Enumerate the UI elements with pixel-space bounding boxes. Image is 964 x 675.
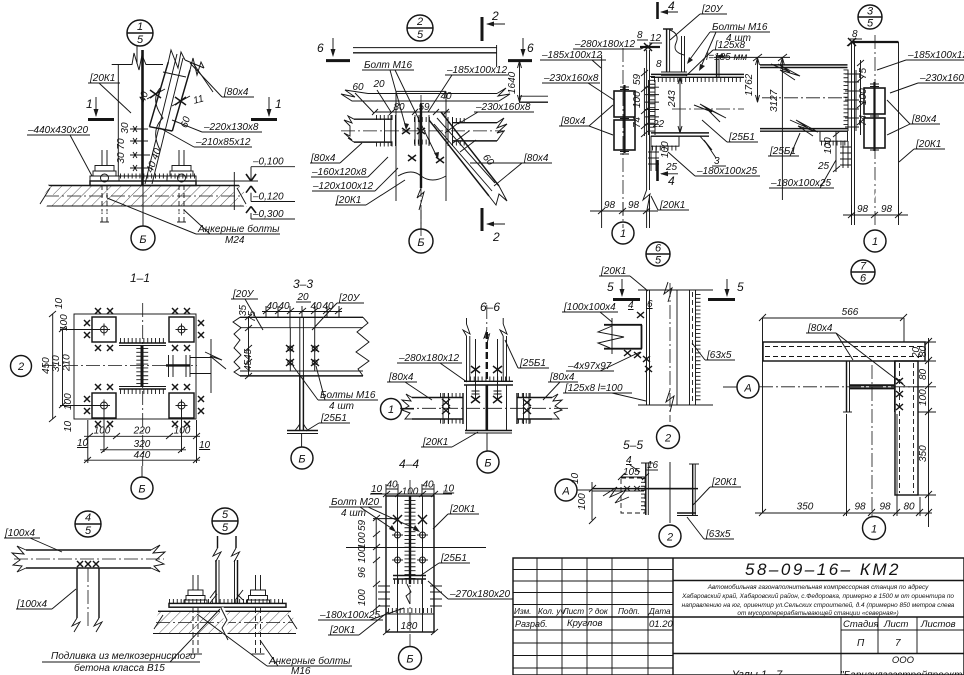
label 80x4 right: [470, 153, 552, 186]
section mark 6 right: [508, 38, 534, 61]
svg-text:[25Б1: [25Б1: [440, 553, 467, 564]
label 20K1 node1: [651, 196, 689, 211]
dim 98 98 bottom right: [843, 204, 908, 218]
svg-text:[80x4: [80x4: [388, 372, 414, 383]
svg-text:100: 100: [63, 393, 74, 410]
section mark 2 top: [482, 9, 505, 41]
column web horizontal: [592, 489, 698, 491]
support table: [648, 136, 679, 171]
lower comb s44: [378, 584, 442, 614]
svg-text:100: 100: [357, 546, 368, 563]
svg-text:6–6: 6–6: [480, 300, 500, 314]
svg-text:16: 16: [647, 460, 659, 471]
svg-text:5: 5: [222, 522, 229, 534]
left dims 35 75 45 45: [238, 304, 258, 379]
label 25B1 left: [768, 133, 800, 157]
label 80x4: [190, 63, 254, 98]
svg-text:[25Б1: [25Б1: [519, 358, 546, 369]
svg-text:[80x4: [80x4: [523, 153, 549, 164]
long centerline: [341, 130, 505, 132]
weld mark 3: [712, 156, 726, 167]
svg-text:98: 98: [879, 502, 891, 513]
svg-text:Кол. уч: Кол. уч: [538, 607, 565, 616]
elevation mark -0,100: [196, 157, 295, 211]
dims 100 25 right: [817, 131, 840, 172]
top dims 20 and 40x4: [262, 292, 342, 328]
svg-text:74: 74: [632, 116, 643, 128]
svg-text:10: 10: [63, 420, 74, 432]
label 25B1 s66: [505, 340, 549, 369]
project description: [673, 583, 964, 617]
svg-text:100: 100: [918, 389, 929, 406]
support table right: [820, 131, 851, 168]
svg-text:12: 12: [650, 33, 662, 44]
svg-text:98: 98: [881, 204, 893, 215]
anchor assembly right: [167, 150, 196, 222]
centerline s55: [669, 462, 671, 523]
revision table header text: [514, 607, 673, 630]
svg-text:5: 5: [137, 34, 144, 46]
anchor plate BL: [84, 384, 116, 427]
svg-text:1: 1: [275, 97, 282, 111]
svg-text:98: 98: [854, 502, 866, 513]
label 125x8 l=100: [563, 383, 646, 401]
dim 1640: [507, 61, 548, 102]
svg-text:[20К1: [20К1: [89, 73, 115, 84]
column K1 d65: [638, 282, 713, 422]
svg-text:2: 2: [492, 230, 500, 244]
svg-text:[20У: [20У: [701, 4, 724, 15]
bolt label M20: [329, 497, 420, 532]
svg-text:40: 40: [422, 480, 434, 491]
svg-text:96: 96: [357, 566, 368, 578]
svg-text:Хабаровский край, Хабаровский: Хабаровский край, Хабаровский район, с.Ф…: [681, 592, 954, 600]
left brace 80x4 s66: [402, 393, 463, 424]
svg-text:[20К1: [20К1: [600, 266, 626, 277]
svg-text:–270x180x20: –270x180x20: [449, 589, 510, 600]
svg-text:2: 2: [17, 361, 24, 373]
labels right side: [877, 50, 964, 162]
svg-text:Б: Б: [406, 654, 413, 666]
label 63x5 s55: [687, 517, 734, 540]
grid bubble 2 d65: [657, 426, 680, 449]
svg-text:2: 2: [666, 532, 673, 544]
section mark 4 top: [658, 0, 679, 19]
svg-text:180: 180: [401, 621, 418, 632]
beam 25B1 top flange: [651, 74, 744, 79]
revision table grid: [513, 558, 673, 675]
svg-text:бетона класса В15: бетона класса В15: [74, 662, 165, 674]
svg-text:243: 243: [667, 90, 678, 108]
svg-text:2: 2: [664, 433, 671, 445]
svg-text:105: 105: [623, 467, 640, 478]
grid bubble A right: [723, 376, 759, 398]
svg-text:40: 40: [386, 480, 398, 491]
svg-text:1: 1: [871, 524, 877, 536]
svg-text:80: 80: [918, 368, 929, 380]
svg-text:59: 59: [357, 519, 368, 531]
svg-text:М24: М24: [225, 235, 245, 246]
elevation mark -0,120: [246, 186, 295, 203]
svg-text:–120x100x12: –120x100x12: [312, 181, 373, 192]
column face comb: [650, 76, 655, 134]
svg-text:Автомобильная газонаполнительн: Автомобильная газонаполнительная компрес…: [707, 583, 929, 591]
tube section dashed: [603, 478, 645, 513]
svg-text:98: 98: [628, 200, 640, 211]
vertical beam 25B1: [463, 305, 507, 381]
svg-text:45: 45: [243, 348, 254, 360]
right brace 80x4 s66: [517, 393, 562, 424]
title block frame: [513, 558, 964, 675]
svg-text:7: 7: [860, 261, 867, 273]
dim 100 25 lower: [660, 141, 678, 173]
label 20K1 right s44: [433, 504, 479, 529]
svg-text:[63x5: [63x5: [705, 529, 731, 540]
svg-text:Б: Б: [484, 458, 491, 470]
anchor plate TL: [84, 308, 116, 351]
top plate mark: [637, 30, 662, 51]
storey dim 1762: [714, 54, 790, 102]
label -280x180x12 s66: [397, 353, 467, 382]
svg-text:[100x100x4: [100x100x4: [563, 302, 616, 313]
svg-text:100: 100: [577, 493, 588, 510]
grid bubble 2 s55: [659, 525, 681, 547]
svg-text:100: 100: [94, 426, 111, 437]
svg-text:–230x160x8: –230x160x8: [543, 73, 599, 84]
svg-text:–4x97x97: –4x97x97: [567, 361, 612, 372]
anchor bolt left d55: [184, 575, 207, 654]
svg-text:40: 40: [310, 301, 322, 312]
svg-text:10: 10: [54, 297, 65, 309]
svg-text:[20К1: [20К1: [335, 195, 361, 206]
svg-text:[80x4: [80x4: [807, 323, 833, 334]
svg-text:60: 60: [352, 82, 364, 93]
svg-text:? док: ? док: [588, 607, 609, 616]
svg-text:[80x4: [80x4: [310, 153, 336, 164]
svg-text:Лист: Лист: [883, 619, 909, 630]
grid bubble A left: [555, 479, 592, 501]
base plate d55: [169, 602, 286, 608]
section mark 1 left: [86, 97, 114, 120]
svg-text:–160x120x8: –160x120x8: [311, 167, 367, 178]
top dims s44: [370, 480, 455, 498]
svg-text:7: 7: [895, 638, 901, 649]
dim chain 75 100 74: [857, 60, 869, 135]
grid bubble 1: [612, 222, 634, 244]
svg-text:П: П: [857, 638, 865, 649]
svg-text:350: 350: [918, 445, 929, 462]
svg-text:566: 566: [842, 307, 859, 318]
svg-text:[20У: [20У: [338, 293, 361, 304]
svg-text:–185x100x12: –185x100x12: [907, 50, 964, 61]
svg-text:Подливка из мелкозернистого: Подливка из мелкозернистого: [51, 651, 196, 662]
anchor assembly left: [90, 150, 119, 222]
top bar 80x4 plan: [763, 342, 925, 361]
svg-text:25: 25: [665, 162, 678, 173]
svg-text:Болт М20: Болт М20: [331, 497, 379, 508]
svg-text:5: 5: [655, 255, 662, 267]
label -185x100x12: [428, 65, 508, 112]
svg-text:6: 6: [647, 299, 653, 310]
label 20U right: [312, 293, 364, 330]
svg-text:5: 5: [867, 18, 874, 30]
section mark 5 left: [607, 279, 640, 300]
top chord beam: [353, 45, 497, 67]
svg-text:Болт М16: Болт М16: [364, 60, 412, 71]
dim 98 98 bottom: [590, 200, 658, 215]
svg-text:[25Б1: [25Б1: [320, 413, 347, 424]
dim 566: [759, 307, 907, 513]
grid bubble 1 s66: [381, 399, 415, 420]
svg-text:2: 2: [416, 16, 423, 28]
svg-text:5: 5: [222, 509, 229, 521]
grid bubble B detail2: [409, 210, 433, 253]
section mark 5 right: [708, 279, 744, 300]
column 20K1 elevation: [112, 46, 163, 185]
svg-text:4: 4: [626, 455, 632, 466]
grid bubble 1 right: [864, 230, 886, 252]
endplate bolt ladder: [645, 80, 659, 135]
mid through-beam: [341, 88, 510, 101]
bolt X marks center: [402, 128, 444, 163]
svg-text:–280x180x12: –280x180x12: [574, 39, 635, 50]
svg-text:[20К1: [20К1: [449, 504, 475, 515]
svg-text:80: 80: [903, 502, 915, 513]
svg-text:[100x4: [100x4: [4, 528, 35, 539]
svg-text:6: 6: [527, 41, 534, 55]
base plate plan: [42, 303, 197, 466]
svg-text:20: 20: [296, 292, 309, 303]
left dim chain 59 100 74 22: [632, 59, 665, 137]
grid bubble 1 d76: [863, 517, 886, 540]
svg-text:[80x4: [80x4: [549, 372, 575, 383]
label 125x8: [686, 40, 750, 76]
label 20K1 s55: [693, 477, 741, 505]
svg-text:70: 70: [116, 138, 127, 150]
column flange left: [641, 463, 653, 515]
label Bolt M16: [362, 60, 439, 159]
label 20K1 left s44: [328, 612, 388, 636]
label -4x97x97: [566, 352, 640, 372]
grid bubble B: [131, 466, 153, 499]
column flange right with 63x5: [649, 464, 699, 516]
svg-text:Б: Б: [138, 484, 145, 496]
svg-text:[100x4: [100x4: [16, 599, 47, 610]
svg-text:А: А: [743, 383, 751, 395]
storey dim 3127: [769, 54, 787, 200]
svg-text:от мусороперерабатывающей стан: от мусороперерабатывающей станции «север…: [737, 609, 898, 617]
detail bubble 4/5: [75, 511, 101, 537]
beam bottom flange: [651, 133, 716, 158]
svg-text:45: 45: [243, 359, 254, 371]
left dim chain s44: [357, 515, 398, 614]
svg-text:[20К1: [20К1: [915, 139, 941, 150]
svg-text:4 шт: 4 шт: [341, 508, 366, 519]
svg-text:[80x4: [80x4: [911, 114, 937, 125]
svg-text:5: 5: [85, 525, 92, 537]
label 20K1 s66: [421, 432, 478, 448]
svg-text:22: 22: [652, 119, 665, 130]
column K1 right: [848, 35, 899, 228]
label -270x180x20: [428, 581, 513, 600]
detail bubble 6/5: [646, 242, 670, 267]
svg-text:59: 59: [632, 73, 643, 85]
svg-text:Разраб.: Разраб.: [515, 619, 548, 629]
bottom dim rows: [77, 408, 211, 463]
svg-text:8: 8: [656, 59, 662, 70]
svg-text:А: А: [561, 486, 569, 498]
double channel beam: [233, 317, 369, 376]
long centerline s44: [346, 547, 486, 549]
anchor plate BR: [169, 384, 204, 427]
label 100x4 bottom: [16, 589, 76, 610]
svg-text:–440x430x20: –440x430x20: [27, 125, 88, 136]
label 25B1 s44: [420, 553, 470, 576]
svg-text:100: 100: [59, 314, 70, 331]
concrete hatch band: [36, 182, 251, 212]
label 25B1: [306, 413, 350, 431]
svg-text:80: 80: [918, 345, 929, 357]
section mark 1 right: [251, 97, 282, 120]
grid bubble B: [131, 185, 155, 250]
endplate ladder right: [845, 70, 859, 131]
concrete hatch band d55: [153, 608, 297, 640]
right dim chain: [903, 338, 936, 527]
diagonal brace down-right: [429, 112, 507, 205]
dim 243: [667, 77, 682, 133]
svg-text:[63x5: [63x5: [706, 350, 732, 361]
svg-text:40: 40: [266, 301, 278, 312]
svg-text:220: 220: [133, 426, 151, 437]
label 20K1 d65: [599, 266, 648, 291]
channel 20U vertical: [661, 29, 687, 75]
label 20U left: [231, 289, 263, 330]
plate -280x180x12: [464, 379, 513, 385]
svg-text:4: 4: [85, 512, 91, 524]
label 25B1: [702, 120, 758, 143]
svg-text:Б: Б: [298, 454, 305, 466]
svg-text:1: 1: [137, 21, 143, 33]
gusset plate diagonals: [145, 54, 183, 184]
svg-text:98: 98: [604, 200, 616, 211]
svg-text:–280x180x12: –280x180x12: [398, 353, 459, 364]
grid bubble 2: [11, 356, 32, 377]
svg-text:[20К1: [20К1: [659, 200, 685, 211]
grid bubble B s44: [399, 647, 422, 670]
company cell: [731, 655, 964, 675]
label 100x4 top: [4, 528, 62, 552]
svg-text:3–3: 3–3: [293, 277, 313, 291]
column box s44: [386, 480, 434, 646]
svg-text:4 шт: 4 шт: [329, 401, 354, 412]
svg-text:Листов: Листов: [920, 619, 956, 630]
labels left stack: [310, 143, 405, 206]
dim 8 top: [847, 29, 862, 46]
svg-text:5: 5: [417, 29, 424, 41]
svg-text:5: 5: [607, 280, 614, 294]
svg-text:[125x8 l=100: [125x8 l=100: [564, 383, 623, 394]
svg-text:4: 4: [628, 300, 634, 311]
svg-text:–185x100x12: –185x100x12: [446, 65, 507, 76]
svg-text:5–5: 5–5: [623, 438, 643, 452]
label -210x85x12: [160, 128, 252, 148]
svg-text:4: 4: [668, 0, 675, 13]
svg-text:1: 1: [620, 228, 626, 240]
svg-text:–180x100x25: –180x100x25: [696, 166, 757, 177]
brace end rectangles right: [864, 82, 885, 151]
svg-text:58–09–16– КМ2: 58–09–16– КМ2: [745, 560, 901, 579]
stage/sheet table: [673, 617, 964, 675]
label -180x100x25 s44: [318, 608, 404, 621]
labels left of node1: [540, 39, 648, 135]
svg-text:Б: Б: [139, 234, 146, 246]
svg-text:2: 2: [491, 9, 499, 23]
label 80x4 right s66: [543, 372, 578, 400]
svg-text:–230x160x8: –230x160x8: [919, 73, 964, 84]
brace bolts X marks: [147, 89, 190, 106]
svg-text:направлению на юг, ориентир ул: направлению на юг, ориентир ул.Сельских …: [682, 601, 955, 609]
anchor plate TR: [169, 308, 204, 351]
svg-text:1: 1: [872, 236, 878, 248]
svg-text:Лист: Лист: [562, 607, 584, 616]
svg-text:3: 3: [867, 6, 874, 18]
svg-text:25: 25: [817, 161, 830, 172]
svg-text:10: 10: [371, 484, 383, 495]
label bolts M16: [687, 22, 770, 71]
vertical tube 100x4: [72, 568, 102, 632]
elevation mark -0,300: [246, 207, 295, 221]
left dim chain: [41, 297, 104, 432]
right brace 80x4: [448, 117, 507, 146]
svg-text:–0,100: –0,100: [252, 157, 284, 168]
svg-text:Изм.: Изм.: [514, 607, 531, 616]
svg-text:М16: М16: [291, 666, 311, 675]
base plate: [90, 176, 196, 186]
svg-text:40: 40: [322, 301, 334, 312]
column I-section: [119, 341, 166, 392]
anchor bolt right d55: [247, 575, 270, 654]
centerline s66: [400, 407, 570, 409]
svg-text:Дата: Дата: [648, 607, 671, 616]
brace end rectangles: [614, 85, 635, 154]
svg-text:1: 1: [86, 97, 93, 111]
center splice plates: [414, 115, 430, 146]
svg-text:6: 6: [317, 41, 324, 55]
beam web break and centerline: [672, 104, 744, 122]
horizontal tube 100x4: [12, 545, 165, 572]
anchor bolts label: [107, 198, 280, 246]
svg-text:310: 310: [51, 355, 62, 372]
label -180x100x25: [769, 160, 836, 189]
svg-text:Болты М16: Болты М16: [320, 390, 376, 401]
svg-text:100: 100: [660, 141, 671, 158]
bolts s44: [392, 515, 428, 567]
A axis line: [759, 386, 924, 388]
svg-text:40: 40: [278, 301, 290, 312]
svg-text:75: 75: [858, 67, 869, 79]
svg-text:1762: 1762: [744, 73, 755, 96]
svg-text:98: 98: [857, 204, 869, 215]
label 20K1: [88, 73, 131, 113]
label 100x100x4: [562, 302, 618, 322]
label -230x160x8: [458, 102, 534, 124]
svg-text:1640: 1640: [507, 71, 518, 94]
svg-text:8: 8: [637, 30, 643, 41]
grid bubble B s33: [291, 434, 313, 469]
bracket plate l=185: [717, 55, 719, 77]
svg-text:ООО: ООО: [892, 655, 915, 666]
detail bubble 2/5: [407, 15, 433, 41]
